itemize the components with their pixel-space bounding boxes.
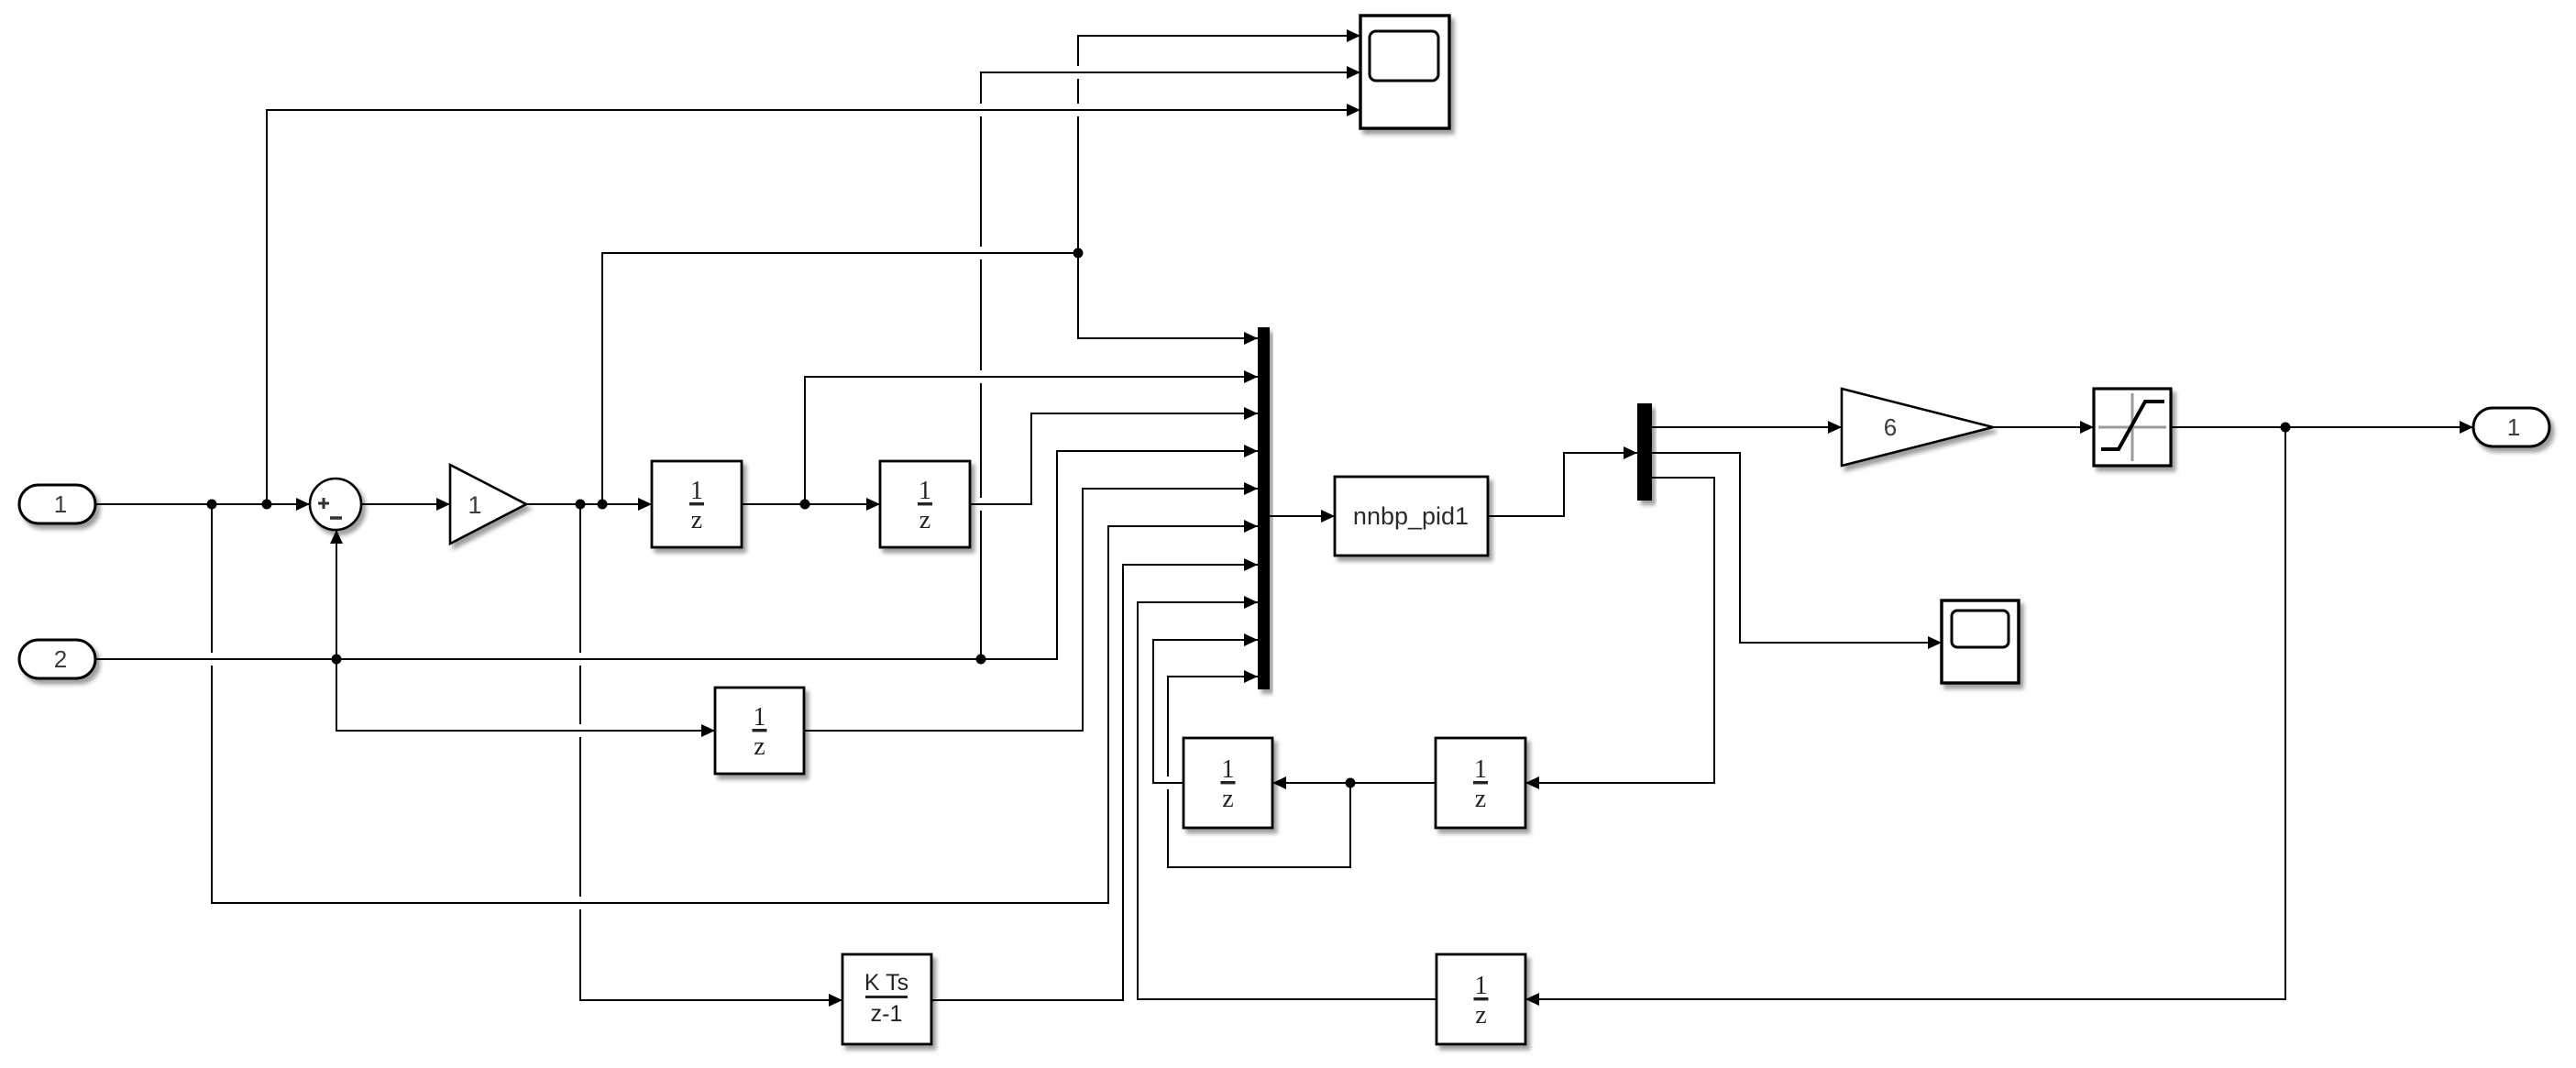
svg-text:z: z [1475,1001,1486,1029]
unit delay delay3 (plant output) [715,688,804,774]
svg-text:nnbp_pid1: nnbp_pid1 [1353,502,1469,530]
saturation block [2094,389,2171,466]
wire gain K to delay1 [526,503,652,505]
gain 6 [1842,389,1993,466]
inport 2 [19,640,95,678]
svg-text:z: z [1222,785,1233,813]
unit delay delay2 [880,461,970,547]
svg-text:1: 1 [690,477,703,505]
wire demux out3 to delay B [1525,478,1714,783]
svg-text:1: 1 [1222,755,1235,784]
wire crossing hops [979,104,983,116]
demux (3 outputs) [1637,403,1652,501]
wire delay1 to delay2 [742,503,880,505]
svg-text:1: 1 [1475,972,1488,1000]
wire plant output to delay3 [336,659,715,731]
junction node 6 [332,655,342,665]
unit delay delay B [1436,738,1525,828]
svg-text:1: 1 [919,477,931,505]
wire delay3 to mux port5 [804,489,1258,731]
nnbp_pid1 S-function block [1335,477,1488,556]
junction node 8 [1073,248,1084,259]
wire mux to nnbp_pid1 [1270,515,1335,517]
wire gain 6 to saturation [1993,426,2094,428]
wire delay B tap to mux port10 [1168,677,1350,867]
wire error to mux port1 [1078,253,1258,338]
junction node 10 [2281,423,2291,433]
junction node 5 [800,500,810,510]
svg-text:z: z [691,506,702,534]
junction node 7 [976,655,986,665]
svg-text:1: 1 [468,491,481,519]
scope2 [1942,600,2019,683]
svg-text:z: z [919,506,930,534]
wire integrator to mux port7 [931,565,1258,1000]
wire plant output up to sum minus [336,530,337,659]
inport 1 [19,485,95,523]
unit delay delay u(k-1) [1437,954,1525,1044]
discrete integrator K Ts/(z-1) [842,954,931,1044]
junction node 3 [576,500,586,510]
outport 1 [2473,408,2549,446]
wire reference down to mux port6 [212,504,1258,903]
wire inport2 to mux port4 [95,451,1258,659]
wire demux out1 to gain 6 [1652,426,1842,428]
svg-text:6: 6 [1884,413,1897,441]
junction node 9 [1346,778,1356,788]
unit delay delay1 [652,461,742,547]
svg-text:z: z [754,732,765,761]
wire sum to gain K [361,503,450,505]
svg-text:1: 1 [1474,755,1487,784]
wire delay1 tap to mux port2 [805,377,1258,504]
wire control feedback to delay u1 [1525,427,2285,999]
svg-text:1: 1 [754,703,766,732]
wire error tap up [602,253,1078,504]
wire delay B to delay A [1272,782,1436,784]
svg-text:1: 1 [2507,413,2520,441]
wire delay2 to mux port3 [970,413,1258,504]
mux (10 inputs) [1258,327,1270,689]
junction node 1 [207,500,217,510]
scope (3 inputs) [1360,16,1449,128]
junction node 4 [598,500,608,510]
wire plant output to scope input2 [981,72,1360,659]
wire demux out2 to scope2 [1652,453,1942,643]
unit delay delay A [1183,738,1272,828]
wire delay A out to mux port9 [1153,640,1258,783]
svg-text:1: 1 [54,490,67,518]
sum junction [310,479,361,530]
wire reference to scope input3 [267,110,1360,504]
svg-text:z: z [1475,785,1486,813]
gain K=1 [450,465,526,544]
wire error to scope input1 [1078,36,1360,253]
wire nnbp_pid1 to demux [1488,453,1637,516]
svg-text:K Ts: K Ts [864,970,908,996]
wire delay u1 to mux port8 [1138,602,1437,999]
svg-text:z-1: z-1 [871,1001,903,1027]
wire saturation to outport [2171,426,2473,428]
junction node 2 [262,500,272,510]
wire inport1 to sum [95,503,310,505]
wire error to integrator KTs [580,504,842,1000]
svg-text:2: 2 [54,645,67,673]
